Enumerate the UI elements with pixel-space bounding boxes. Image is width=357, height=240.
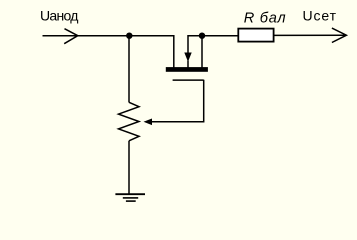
wiper arrow (filled, points left at zigzag): [144, 119, 153, 126]
wire: potentiometer bottom to ground: [128, 141, 130, 194]
ground: [115, 194, 145, 201]
svg-text:R бал: R бал: [244, 11, 286, 27]
potentiometer R1 (zigzag body): [119, 102, 140, 141]
wire: node A down to potentiometer: [128, 36, 130, 103]
output arrow (open chevron): [332, 28, 347, 42]
wire: grid net horizontal to resistor, corner down at left: [188, 36, 238, 54]
node B (junction dot on grid wire): [199, 33, 205, 39]
wire: anode input horizontal, corner down to element top electrode: [43, 36, 174, 69]
wire: wiper to lower electrode (vertical + horizontal): [151, 80, 204, 122]
svg-text:Uанод: Uанод: [40, 7, 78, 23]
electrode element: lower electrode (thin L-shaped plate): [173, 79, 204, 81]
electrode element: thick top bar (anode plate): [166, 67, 208, 72]
resistor R бал (ballast resistor box): [238, 29, 273, 42]
svg-text:Uсет: Uсет: [303, 7, 337, 23]
wire: node B down to thick bar: [201, 36, 203, 68]
wire: resistor to output: [274, 34, 346, 36]
control arrow (filled, points down at top bar): [184, 53, 191, 62]
node A (junction dot on anode wire): [126, 33, 132, 39]
input arrow (open chevron on anode wire): [64, 29, 78, 44]
